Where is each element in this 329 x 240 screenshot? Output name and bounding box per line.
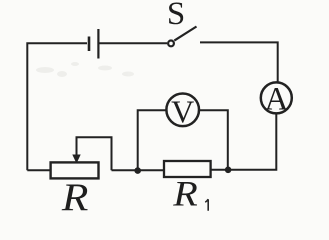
svg-text:R: R [61, 176, 89, 219]
rheostat R body [51, 162, 99, 178]
label R1 subscript 1 [205, 199, 208, 211]
ammeter A circle [261, 82, 292, 113]
wire ammeter to bottom-right corner [211, 114, 277, 170]
wire top-left horizontal [27, 43, 87, 170]
rheostat R wiper arrowhead [72, 155, 80, 164]
wire R1 left to wiper drop [112, 169, 165, 171]
wire switch to right corner [200, 42, 278, 81]
switch S pivot circle [168, 41, 174, 47]
svg-text:S: S [167, 0, 185, 32]
wire voltmeter right lead [199, 110, 228, 170]
battery B1 short plate [88, 37, 91, 52]
wire battery to switch [100, 42, 168, 44]
node junction dot left [134, 167, 141, 174]
battery B1 long plate [97, 29, 99, 59]
svg-text:R: R [172, 174, 198, 214]
voltmeter V circle [166, 94, 199, 127]
wire voltmeter left lead [138, 110, 167, 170]
wire rheostat wiper loop [77, 137, 112, 170]
svg-text:V: V [171, 94, 194, 130]
wire left vertical to R [27, 169, 50, 171]
svg-text:A: A [265, 82, 289, 118]
resistor R1 body [164, 161, 211, 177]
node junction dot right [225, 167, 232, 174]
switch S lever [174, 27, 196, 41]
